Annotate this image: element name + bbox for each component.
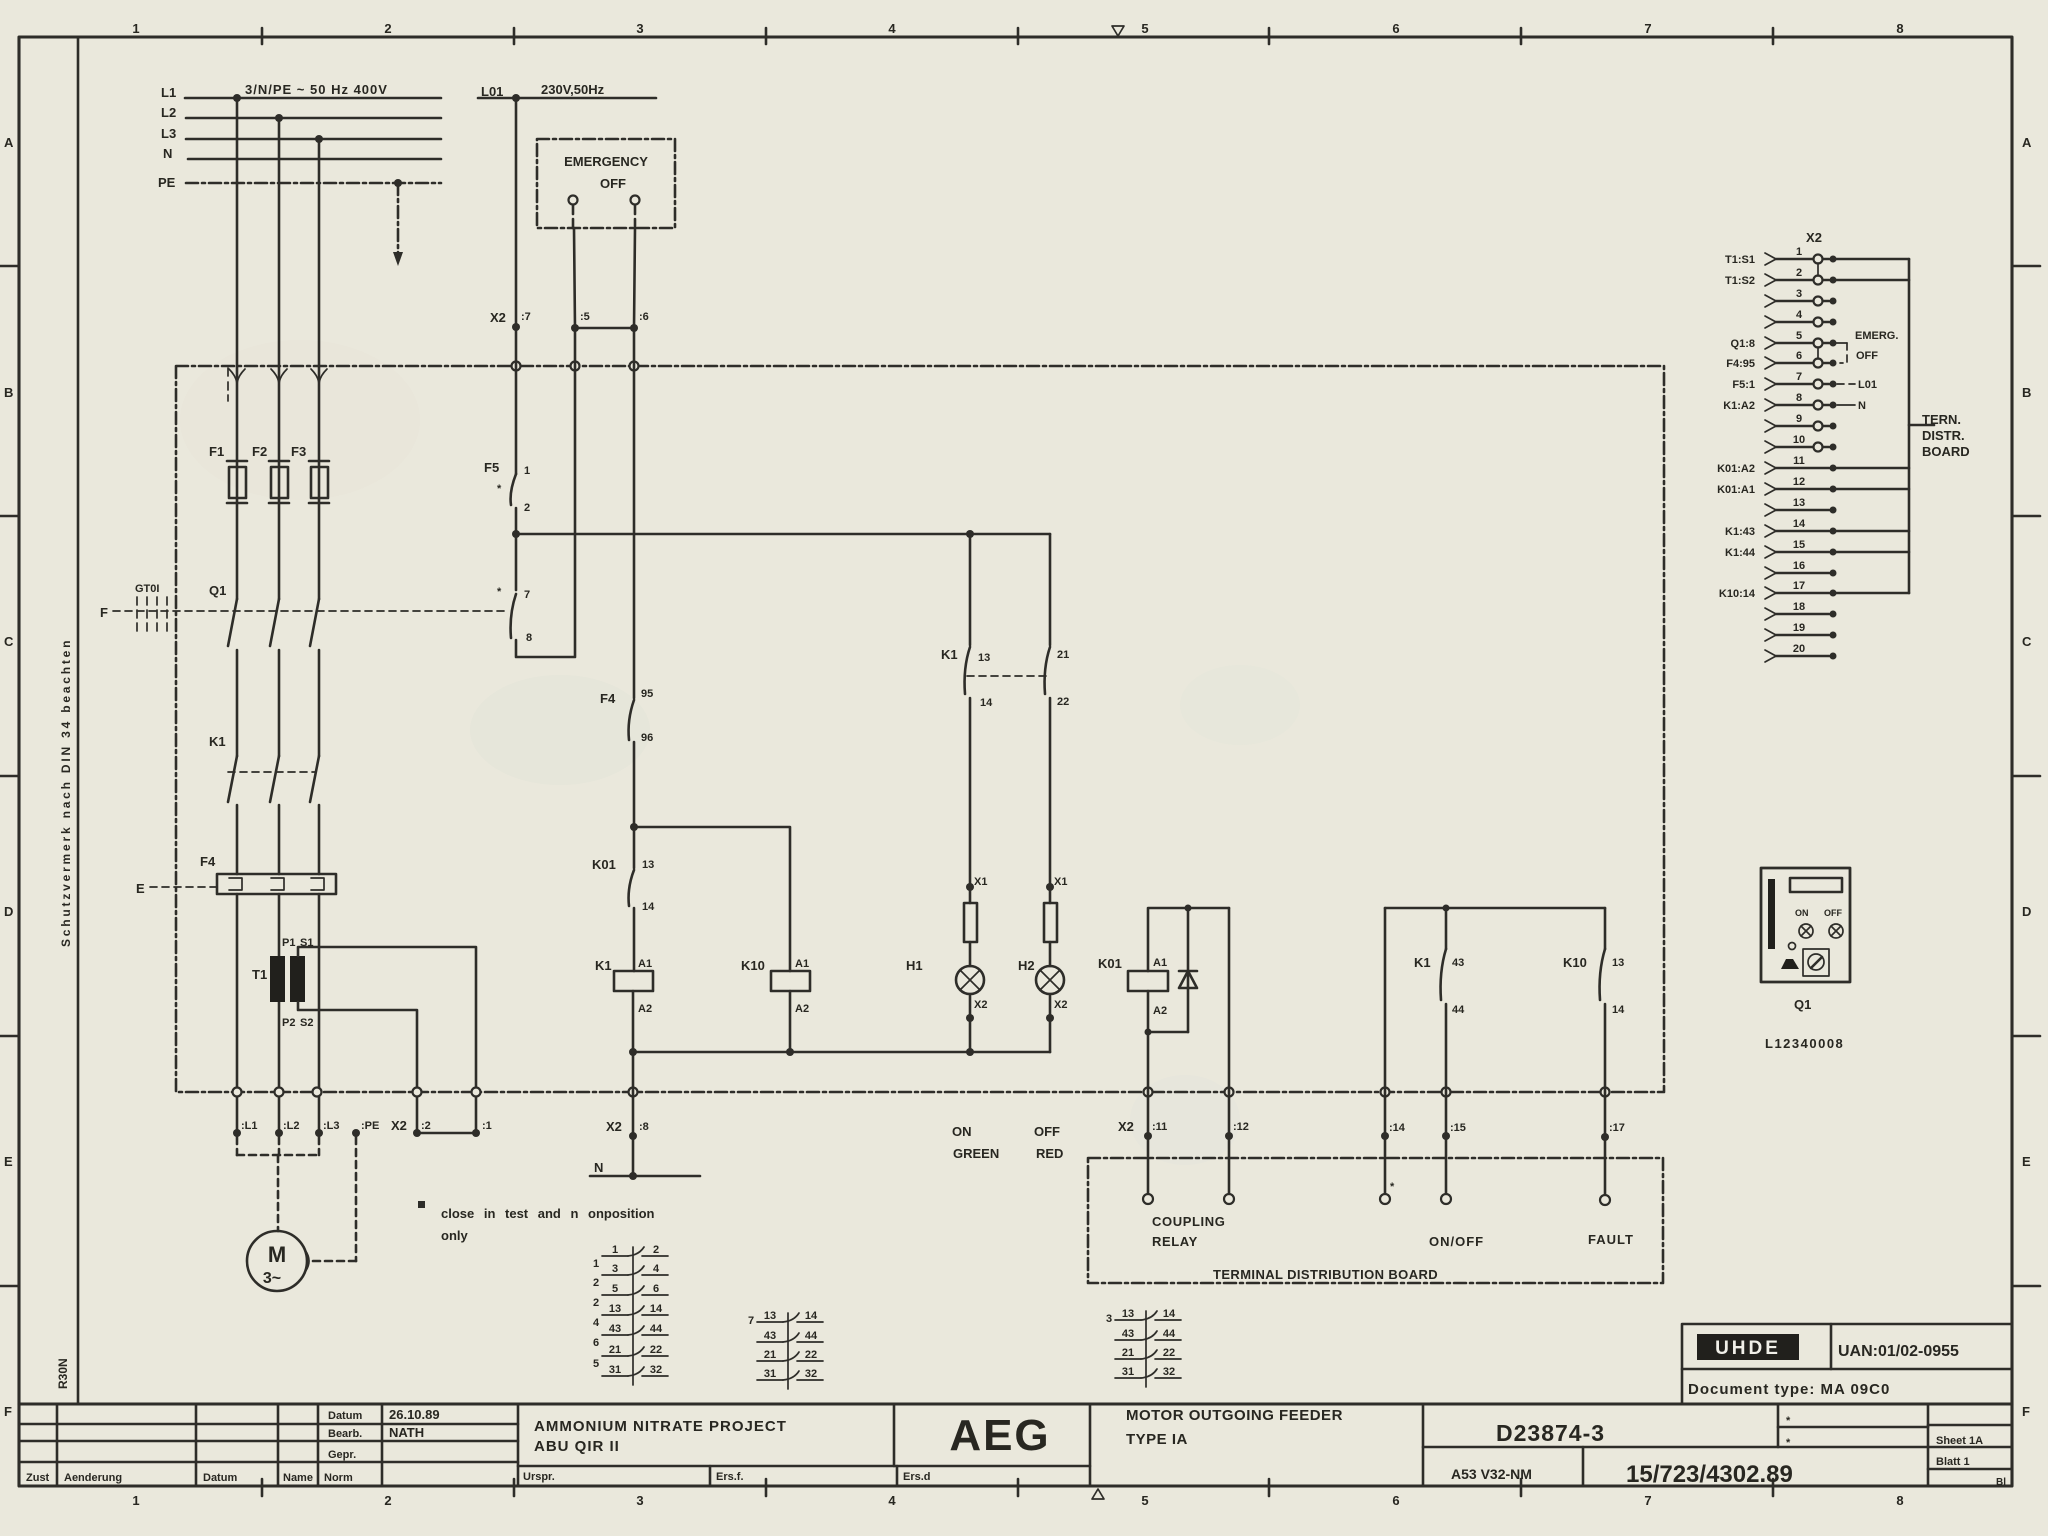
terminal X2:1 <box>472 1129 480 1137</box>
svg-text:3/N/PE ~ 50 Hz 400V: 3/N/PE ~ 50 Hz 400V <box>245 82 388 97</box>
svg-text:7: 7 <box>748 1315 754 1327</box>
svg-text:14: 14 <box>1163 1308 1176 1320</box>
node PE tap <box>394 179 402 187</box>
svg-text:UHDE: UHDE <box>1715 1338 1781 1359</box>
svg-text:K01: K01 <box>1098 956 1122 971</box>
svg-text:EMERGENCY: EMERGENCY <box>564 154 648 169</box>
svg-text:230V,50Hz: 230V,50Hz <box>541 82 605 97</box>
svg-text:1: 1 <box>524 465 530 477</box>
svg-text:FAULT: FAULT <box>1588 1232 1634 1247</box>
svg-text:1: 1 <box>593 1258 599 1270</box>
svg-text:7: 7 <box>1644 21 1651 36</box>
terminal X2 strip row 18 <box>1765 601 1837 620</box>
terminal X2 strip row 10 <box>1765 434 1837 453</box>
svg-text:Bl: Bl <box>1996 1477 2006 1488</box>
svg-text:K1: K1 <box>941 647 958 662</box>
svg-text:X2: X2 <box>490 310 506 325</box>
svg-text:19: 19 <box>1793 622 1805 634</box>
terminal :L2 <box>275 1129 283 1137</box>
svg-text:Norm: Norm <box>324 1472 353 1484</box>
svg-text:B: B <box>4 385 13 400</box>
board socket circles <box>1143 1194 1153 1204</box>
svg-text:BOARD: BOARD <box>1922 444 1970 459</box>
sheet numbers <box>1936 1435 2006 1488</box>
svg-text:A2: A2 <box>1153 1005 1167 1017</box>
svg-text:*: * <box>497 586 502 598</box>
svg-text:22: 22 <box>1163 1347 1175 1359</box>
svg-text:14: 14 <box>650 1303 663 1315</box>
node L01 <box>512 94 520 102</box>
svg-text:1: 1 <box>1796 246 1802 258</box>
svg-text:X2: X2 <box>1118 1119 1134 1134</box>
svg-text:43: 43 <box>1122 1328 1134 1340</box>
svg-text:*: * <box>1390 1181 1395 1193</box>
svg-text:32: 32 <box>650 1364 662 1376</box>
svg-text:2: 2 <box>524 502 530 514</box>
svg-text:H2: H2 <box>1018 958 1035 973</box>
svg-text:44: 44 <box>1163 1328 1176 1340</box>
terminal :PE <box>352 1129 360 1137</box>
svg-text:2: 2 <box>384 1493 391 1508</box>
svg-text:P1: P1 <box>282 937 295 949</box>
svg-text:11: 11 <box>1793 455 1805 467</box>
svg-text:OFF: OFF <box>600 176 626 191</box>
svg-text::17: :17 <box>1609 1122 1625 1134</box>
F4 heater element x=279 <box>271 878 284 890</box>
svg-text::8: :8 <box>639 1121 649 1133</box>
svg-text:A: A <box>2022 135 2032 150</box>
svg-text:3~: 3~ <box>263 1270 281 1287</box>
svg-text:K01:A2: K01:A2 <box>1717 463 1755 475</box>
CT shorting link X2:1-X2:2 <box>417 1132 476 1135</box>
control bus to K1 contacts <box>516 533 1050 536</box>
terminal distribution board box <box>1088 1158 1663 1283</box>
node A2-diode <box>1145 1029 1152 1036</box>
breaker Q1 aux contact 7-8 <box>515 534 518 590</box>
svg-text:L01: L01 <box>1858 379 1877 391</box>
svg-text:3: 3 <box>636 21 643 36</box>
L01 bus <box>478 97 656 100</box>
svg-text:31: 31 <box>609 1364 621 1376</box>
footnote close in test <box>418 1201 425 1208</box>
svg-text:DISTR.: DISTR. <box>1922 428 1965 443</box>
svg-text:AMMONIUM NITRATE PROJECT: AMMONIUM NITRATE PROJECT <box>534 1418 787 1435</box>
enclosure pass-through x=1229 <box>1225 1088 1234 1097</box>
svg-text:6: 6 <box>1392 1493 1399 1508</box>
svg-text:3: 3 <box>1106 1313 1112 1325</box>
motor cable dashed <box>237 1137 319 1155</box>
svg-text:Ers.f.: Ers.f. <box>716 1471 744 1483</box>
K1 linkage dashed <box>228 771 316 773</box>
relay K01 contact 13-14 <box>633 827 636 868</box>
svg-text:A: A <box>4 135 14 150</box>
svg-text:2: 2 <box>593 1277 599 1289</box>
node L2 tap <box>275 114 283 122</box>
zone ticks left edge <box>0 266 19 1286</box>
guide dashes at L1 entry <box>227 368 229 401</box>
svg-text:16: 16 <box>1793 560 1805 572</box>
terminal X2 strip row 19 <box>1765 622 1837 641</box>
svg-text:95: 95 <box>641 688 653 700</box>
svg-text:13: 13 <box>609 1303 621 1315</box>
relay K10 contact 13-14 <box>1604 908 1607 949</box>
svg-text:Gepr.: Gepr. <box>328 1449 356 1461</box>
svg-text:Ers.d: Ers.d <box>903 1471 931 1483</box>
terminal X2 strip row 2 <box>1725 267 1909 287</box>
svg-text:2: 2 <box>384 21 391 36</box>
svg-text:Name: Name <box>283 1472 313 1484</box>
suppressor diode <box>1187 908 1190 1032</box>
svg-text:32: 32 <box>1163 1366 1175 1378</box>
svg-text:21: 21 <box>764 1349 776 1361</box>
svg-text:1: 1 <box>132 21 139 36</box>
svg-text:Document type: MA 09C0: Document type: MA 09C0 <box>1688 1381 1890 1398</box>
wire S2 to X2:2 <box>298 1002 417 1133</box>
grid column numbers top <box>132 21 1903 36</box>
svg-text:only: only <box>441 1228 468 1243</box>
breaker Q1 front view device <box>1761 868 1850 982</box>
svg-text:A1: A1 <box>795 958 809 970</box>
svg-text:K01:A1: K01:A1 <box>1717 484 1755 496</box>
svg-text:RED: RED <box>1036 1146 1063 1161</box>
PE stub with arrow <box>397 183 400 258</box>
svg-text::15: :15 <box>1450 1122 1466 1134</box>
terminal X2 strip row 8 <box>1723 392 1836 412</box>
wire branch to K10 coil <box>634 827 790 971</box>
contactor K1 pole x=237 <box>228 756 237 802</box>
terminal X2 strip row 15 <box>1725 539 1909 559</box>
terminal X2 strip row 7 <box>1732 371 1836 391</box>
wire L3 drop <box>318 139 321 461</box>
PE cable dashed to motor <box>355 1137 358 1261</box>
svg-text:OFF: OFF <box>1824 908 1842 918</box>
svg-text:E: E <box>4 1154 13 1169</box>
link X2:5-X2:6 <box>575 327 634 330</box>
breaker Q1 pole x=237 <box>228 599 237 646</box>
svg-text:15: 15 <box>1793 539 1805 551</box>
scan tint spots <box>470 675 650 785</box>
wire emerg right down <box>634 205 637 228</box>
contact table K1 <box>593 1244 668 1385</box>
svg-text:Zust: Zust <box>26 1472 50 1484</box>
svg-text:F4:95: F4:95 <box>1726 358 1755 370</box>
svg-text:L1: L1 <box>161 85 176 100</box>
fuse F2 <box>269 461 289 503</box>
svg-text:4: 4 <box>1796 309 1803 321</box>
svg-text:N: N <box>1858 400 1866 412</box>
enclosure pass-through x=279 <box>275 1088 284 1097</box>
svg-text:31: 31 <box>1122 1366 1134 1378</box>
svg-text:22: 22 <box>805 1349 817 1361</box>
svg-text:21: 21 <box>1122 1347 1134 1359</box>
svg-text:12: 12 <box>1793 476 1805 488</box>
svg-text:13: 13 <box>1612 957 1624 969</box>
wire L2 drop <box>278 118 281 461</box>
svg-text:96: 96 <box>641 732 653 744</box>
terminal X2 strip row 17 <box>1719 580 1909 600</box>
svg-text:Q1: Q1 <box>1794 997 1811 1012</box>
title mini table labels <box>328 1410 362 1461</box>
svg-text:B: B <box>2022 385 2031 400</box>
svg-text:14: 14 <box>642 901 655 913</box>
svg-text:K10: K10 <box>1563 955 1587 970</box>
svg-text:X2: X2 <box>974 999 987 1011</box>
svg-text:T1:S1: T1:S1 <box>1725 254 1755 266</box>
F4 heater element x=319 <box>311 878 324 890</box>
wire X2:6 to F4:95 <box>633 362 636 698</box>
grid row letters left <box>4 135 14 1419</box>
motor PE lug arc <box>305 1250 309 1272</box>
wire L2 CT to terminal <box>278 1002 281 1133</box>
svg-text:Bearb.: Bearb. <box>328 1428 362 1440</box>
svg-text:A1: A1 <box>638 958 652 970</box>
svg-text:Schutzvermerk nach DIN 34 beac: Schutzvermerk nach DIN 34 beachten <box>59 638 73 947</box>
revision marker triangle top <box>1112 26 1124 36</box>
svg-text:OFF: OFF <box>1034 1124 1060 1139</box>
svg-text:26.10.89: 26.10.89 <box>389 1407 440 1422</box>
wire L01 down <box>515 98 518 327</box>
svg-text:R30N: R30N <box>56 1358 70 1389</box>
X2 strip bus to board <box>1908 259 1911 593</box>
svg-text:6: 6 <box>593 1337 599 1349</box>
grid column numbers bottom <box>132 1493 1903 1508</box>
enclosure pass-through x=516 <box>512 362 521 371</box>
svg-text:2: 2 <box>653 1244 659 1256</box>
svg-text:6: 6 <box>653 1283 659 1295</box>
svg-text:EMERG.: EMERG. <box>1855 330 1898 342</box>
node F5 out <box>512 530 520 538</box>
coil return bus <box>633 1051 1050 1054</box>
K1 aux linkage dashed <box>967 675 1046 677</box>
svg-text:F5: F5 <box>484 460 499 475</box>
svg-text:S2: S2 <box>300 1017 313 1029</box>
svg-text:*: * <box>1786 1437 1791 1449</box>
EMERGENCY OFF remote box <box>537 139 675 228</box>
X2 link 5-6 <box>1817 347 1819 359</box>
svg-text:13: 13 <box>642 859 654 871</box>
terminal :L3 <box>315 1129 323 1137</box>
X2 link 1-2 <box>1817 263 1819 276</box>
title block outline <box>19 1404 2012 1486</box>
svg-text:RELAY: RELAY <box>1152 1234 1198 1249</box>
wire X2:8 to N <box>632 1136 635 1176</box>
svg-text:14: 14 <box>805 1310 818 1322</box>
svg-text:21: 21 <box>1057 649 1069 661</box>
svg-text:8: 8 <box>1796 392 1802 404</box>
svg-text:K01: K01 <box>592 857 616 872</box>
wire 237 fuse to Q1 <box>236 503 239 599</box>
svg-text:5: 5 <box>593 1358 599 1370</box>
wire X2:6 down <box>633 332 636 362</box>
svg-text:N: N <box>163 146 172 161</box>
plug-in contact L-phase x=237 <box>229 369 245 385</box>
svg-text:COUPLING: COUPLING <box>1152 1214 1225 1229</box>
terminal X2 strip row 16 <box>1765 560 1837 579</box>
Q1 mechanical linkage dashed <box>113 610 508 612</box>
wire to H1 lamp <box>969 534 972 645</box>
svg-text:44: 44 <box>650 1323 663 1335</box>
svg-text:UAN:01/02-0955: UAN:01/02-0955 <box>1838 1343 1959 1360</box>
svg-text:TERN.: TERN. <box>1922 412 1961 427</box>
node L1 tap <box>233 94 241 102</box>
svg-text:F1: F1 <box>209 444 224 459</box>
enclosure pass-through x=317 <box>313 1088 322 1097</box>
svg-text:14: 14 <box>1612 1004 1625 1016</box>
wire bus to X2:8 <box>632 1052 635 1136</box>
svg-text::11: :11 <box>1152 1121 1167 1133</box>
svg-text:8: 8 <box>1896 1493 1903 1508</box>
svg-text:MOTOR OUTGOING FEEDER: MOTOR OUTGOING FEEDER <box>1126 1407 1343 1424</box>
svg-text:7: 7 <box>1644 1493 1651 1508</box>
terminal X2 strip row 13 <box>1765 497 1837 516</box>
svg-text:AEG: AEG <box>949 1411 1050 1460</box>
svg-text:F: F <box>2022 1404 2030 1419</box>
svg-text:7: 7 <box>1796 371 1802 383</box>
left margin line <box>77 37 80 1404</box>
svg-text:close in test and n onposition: close in test and n onposition <box>441 1206 655 1221</box>
enclosure pass-through x=575 <box>571 362 580 371</box>
svg-text:5: 5 <box>1141 1493 1148 1508</box>
svg-text:F: F <box>100 605 108 620</box>
svg-text:F5:1: F5:1 <box>1732 379 1755 391</box>
emergency button terminal right <box>631 196 640 205</box>
svg-text:44: 44 <box>805 1330 818 1342</box>
wire S1 to X2:1 <box>298 947 476 1133</box>
svg-text:F4: F4 <box>600 691 616 706</box>
svg-text:ABU QIR II: ABU QIR II <box>534 1438 620 1455</box>
N tag row8 <box>1837 404 1855 406</box>
svg-text:E: E <box>2022 1154 2031 1169</box>
fuse F1 <box>227 461 247 503</box>
svg-text:31: 31 <box>764 1368 776 1380</box>
svg-text::7: :7 <box>521 311 531 323</box>
emergency button terminal left <box>569 196 578 205</box>
terminal X2 strip row 14 <box>1725 518 1909 538</box>
wire to H2 lamp <box>1049 534 1052 645</box>
svg-text:K10: K10 <box>741 958 765 973</box>
svg-text:18: 18 <box>1793 601 1805 613</box>
svg-text:17: 17 <box>1793 580 1805 592</box>
svg-text::PE: :PE <box>361 1120 379 1132</box>
svg-text:44: 44 <box>1452 1004 1465 1016</box>
svg-text:F3: F3 <box>291 444 306 459</box>
svg-text:5: 5 <box>1796 330 1802 342</box>
svg-text:H1: H1 <box>906 958 923 973</box>
svg-text:Q1:8: Q1:8 <box>1731 338 1755 350</box>
svg-text::L3: :L3 <box>323 1120 340 1132</box>
svg-text:D: D <box>2022 904 2031 919</box>
contactor K1 aux 43-44 <box>1445 908 1448 949</box>
node lamp branch <box>966 530 974 538</box>
svg-text::2: :2 <box>421 1120 431 1132</box>
EMERG OFF note at rows 5-6 <box>1836 342 1847 344</box>
svg-text:5: 5 <box>612 1283 618 1295</box>
svg-text:13: 13 <box>1793 497 1805 509</box>
svg-text:2: 2 <box>1796 267 1802 279</box>
plug-in contact L-phase x=279 <box>271 369 287 385</box>
svg-text:K1: K1 <box>1414 955 1431 970</box>
wire emerg left down <box>572 205 575 228</box>
svg-text:A1: A1 <box>1153 957 1167 969</box>
UHDE logo <box>1697 1334 1799 1360</box>
node L3 tap <box>315 135 323 143</box>
svg-text:4: 4 <box>888 21 896 36</box>
svg-text:F2: F2 <box>252 444 267 459</box>
F4 heater element x=237 <box>229 878 242 890</box>
svg-text:K1: K1 <box>209 734 226 749</box>
svg-text:14: 14 <box>1793 518 1806 530</box>
svg-text:X2: X2 <box>1806 230 1822 245</box>
svg-text:K1:44: K1:44 <box>1725 547 1756 559</box>
svg-text:K10:14: K10:14 <box>1719 588 1756 600</box>
svg-text:7: 7 <box>524 589 530 601</box>
svg-text:X2: X2 <box>606 1119 622 1134</box>
svg-text:32: 32 <box>805 1368 817 1380</box>
enclosure pass-through x=1385 <box>1381 1088 1390 1097</box>
contact table K10 <box>748 1310 823 1389</box>
svg-text:*: * <box>497 483 502 495</box>
svg-text:6: 6 <box>1796 350 1802 362</box>
svg-text::L2: :L2 <box>283 1120 300 1132</box>
svg-text:4: 4 <box>653 1263 660 1275</box>
svg-text:6: 6 <box>1392 21 1399 36</box>
wire X2:7 to F5 <box>515 331 518 474</box>
svg-text:D23874-3: D23874-3 <box>1496 1420 1605 1446</box>
grid row letters right <box>2022 135 2032 1419</box>
svg-text:GT0I: GT0I <box>135 583 159 595</box>
svg-text:TYPE IA: TYPE IA <box>1126 1431 1188 1448</box>
motor M 3~ <box>247 1231 307 1291</box>
wire to X2:12 <box>1228 908 1231 1199</box>
svg-text::6: :6 <box>639 311 649 323</box>
terminal X2 strip row 12 <box>1717 476 1909 496</box>
svg-text:43: 43 <box>1452 957 1464 969</box>
svg-text::1: :1 <box>482 1120 492 1132</box>
svg-text:3: 3 <box>636 1493 643 1508</box>
plug-in contact L-phase x=319 <box>311 369 327 385</box>
svg-text:L12340008: L12340008 <box>1765 1036 1844 1051</box>
svg-text:8: 8 <box>1896 21 1903 36</box>
svg-text:NATH: NATH <box>389 1425 424 1440</box>
terminal X2 strip row 20 <box>1765 643 1837 662</box>
wire L3 to terminal <box>318 894 321 1133</box>
svg-text:T1:S2: T1:S2 <box>1725 275 1755 287</box>
svg-text:Q1: Q1 <box>209 583 226 598</box>
terminal X2 strip row 4 <box>1765 309 1837 328</box>
wire 279 fuse to Q1 <box>278 503 281 599</box>
svg-text:E: E <box>136 881 145 896</box>
asterisk marks <box>1786 1415 1791 1449</box>
svg-text:22: 22 <box>650 1344 662 1356</box>
enclosure pass-through x=1446 <box>1442 1088 1451 1097</box>
coupling relay K01 coil <box>1148 908 1229 971</box>
enclosure pass-through x=476 <box>472 1088 481 1097</box>
svg-text:43: 43 <box>764 1330 776 1342</box>
revision marker triangle bottom <box>1092 1489 1104 1499</box>
svg-text:13: 13 <box>1122 1308 1134 1320</box>
zone ticks right edge <box>2012 266 2040 1286</box>
enclosure pass-through x=1148 <box>1144 1088 1153 1097</box>
svg-text:14: 14 <box>980 697 993 709</box>
svg-text:TERMINAL DISTRIBUTION BOARD: TERMINAL DISTRIBUTION BOARD <box>1213 1267 1438 1282</box>
svg-text:K1:43: K1:43 <box>1725 526 1755 538</box>
date and author values <box>389 1407 440 1440</box>
svg-text:13: 13 <box>764 1310 776 1322</box>
terminal X2 strip row 11 <box>1717 455 1909 475</box>
svg-text:8: 8 <box>526 632 532 644</box>
breaker Q1 pole x=319 <box>310 599 319 646</box>
svg-text:20: 20 <box>1793 643 1805 655</box>
